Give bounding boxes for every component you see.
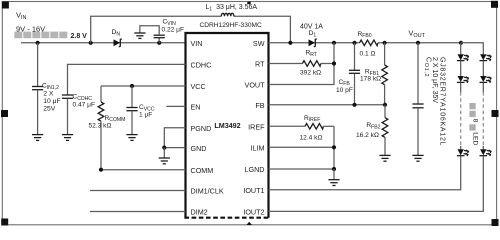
wire IREF/ILIM/LGND sense ground net — [333, 126, 335, 169]
svg-text:392 kΩ: 392 kΩ — [300, 69, 321, 76]
node PGND / GND junction — [162, 146, 166, 150]
svg-text:1 μF: 1 μF — [139, 111, 152, 118]
svg-text:16.2 kΩ: 16.2 kΩ — [356, 132, 379, 139]
svg-text:LED: LED — [472, 132, 479, 145]
svg-text:VIN: VIN — [191, 39, 203, 48]
wire PGND — [164, 128, 185, 148]
ground PGND/GND — [159, 148, 170, 164]
svg-text:LGND: LGND — [245, 165, 265, 174]
node FB / C_FB junction — [352, 103, 356, 107]
wire VIN rail — [21, 42, 186, 44]
wire output rail after R_FB0 — [378, 42, 461, 44]
note shutdown voltage (Chinese, gray) — [14, 32, 87, 40]
capacitor C_IN1,2 — [32, 43, 61, 134]
wire COMM — [101, 169, 186, 171]
capacitor C_O1,2 — [412, 43, 423, 155]
svg-text:0.47 μF: 0.47 μF — [73, 101, 96, 108]
node ILIM junction — [332, 145, 336, 149]
node VOUT / LED string 1 junction — [459, 41, 463, 45]
wire ILIM — [269, 146, 335, 148]
svg-text:IREF: IREF — [248, 123, 265, 132]
svg-text:8: 8 — [472, 119, 479, 123]
wire CDHC — [68, 64, 186, 94]
svg-text:10 μF: 10 μF — [43, 98, 61, 105]
inductor L1 — [200, 4, 263, 29]
resistor R_FB1 — [360, 43, 387, 105]
node R_RT / sense column junction — [332, 61, 336, 65]
svg-text:12.4 kΩ: 12.4 kΩ — [300, 135, 323, 142]
wire IOUT1 — [269, 158, 461, 190]
svg-text:25V: 25V — [43, 105, 56, 112]
wire DIM1/CLK — [90, 190, 186, 192]
ground R_FB2 — [379, 155, 390, 161]
node FB / R_FB1 / R_FB2 junction — [383, 103, 387, 107]
wire inductor loop — [91, 16, 222, 43]
ground C_IN — [32, 135, 43, 141]
resistor R_RT — [269, 50, 335, 77]
wire inductor loop right — [234, 16, 291, 43]
label C_O values (vertical) — [423, 57, 445, 146]
wire LED string top — [461, 43, 483, 54]
node SW / L junction — [288, 41, 292, 45]
U1 right pin names — [243, 39, 265, 217]
wire FB — [269, 104, 386, 106]
svg-text:178 kΩ: 178 kΩ — [360, 75, 381, 82]
node R_FB1 top junction — [383, 41, 387, 45]
wire LGND — [269, 168, 335, 170]
svg-text:GND: GND — [191, 144, 207, 153]
capacitor C_FB — [336, 43, 360, 105]
svg-text:DIM2: DIM2 — [191, 208, 208, 217]
capacitor C_CDHC — [62, 94, 95, 135]
ground C_VCC — [126, 135, 137, 141]
LED string 2 — [480, 54, 492, 158]
ground C_O — [412, 155, 423, 161]
svg-text:CDHC: CDHC — [191, 61, 212, 70]
label VIN — [16, 11, 45, 34]
node C_FB top junction — [352, 41, 356, 45]
svg-text:2 X 10 μF, 35V: 2 X 10 μF, 35V — [431, 57, 438, 103]
svg-text:RT: RT — [255, 60, 265, 69]
svg-text:0.1 Ω: 0.1 Ω — [360, 50, 376, 57]
svg-text:SW: SW — [253, 39, 265, 48]
node LGND junction — [332, 167, 336, 171]
svg-text:GJ832ER7YA106KA12L: GJ832ER7YA106KA12L — [438, 57, 445, 146]
svg-text:IOUT1: IOUT1 — [243, 186, 264, 195]
svg-text:IOUT2: IOUT2 — [243, 208, 264, 217]
svg-text:2 X: 2 X — [43, 91, 54, 98]
U1 left pin names — [191, 39, 224, 217]
stray mark top — [247, 2, 250, 5]
wire VOUT sense column — [269, 43, 335, 85]
svg-text:LM3492: LM3492 — [214, 121, 240, 130]
wire DIM2 — [90, 211, 186, 213]
node VIN / C_VIN junction — [157, 41, 161, 45]
IC U1 LM3492 — [184, 32, 269, 218]
svg-text:VCC: VCC — [191, 82, 206, 91]
svg-text:2.8 V: 2.8 V — [71, 33, 88, 40]
svg-text:10 pF: 10 pF — [336, 87, 353, 94]
ground C_VIN — [134, 33, 145, 38]
ground C_CDHC — [62, 135, 73, 141]
node C_O junction — [416, 41, 420, 45]
node output / sense column junction — [332, 41, 336, 45]
note LEDs per string (Chinese, gray, vertical) — [469, 103, 478, 146]
wire IOUT2 — [269, 158, 484, 211]
capacitor C_VIN — [140, 19, 184, 43]
svg-text:VOUT: VOUT — [245, 81, 266, 90]
node COMM / R_COMM junction — [99, 168, 103, 172]
wire SW to output rail — [269, 42, 360, 44]
svg-text:ILIM: ILIM — [251, 144, 265, 153]
diode D1 — [300, 24, 323, 47]
svg-text:COMM: COMM — [191, 166, 214, 175]
wire GND — [164, 147, 185, 149]
svg-text:0.22 μF: 0.22 μF — [162, 26, 185, 33]
node VIN / L junction — [89, 41, 93, 45]
wire VCC — [101, 85, 186, 87]
wire EN stub — [166, 105, 185, 107]
svg-text:CDRH129HF-330MC: CDRH129HF-330MC — [200, 22, 263, 29]
node VCC / C_VCC junction — [130, 84, 134, 88]
resistor R_IREF — [269, 115, 335, 142]
resistor R_COMM — [89, 86, 126, 170]
svg-text:FB: FB — [255, 101, 264, 110]
capacitor C_VCC — [126, 86, 154, 134]
resistor R_FB0 — [358, 31, 379, 58]
ground LGND — [328, 169, 339, 186]
svg-text:PGND: PGND — [191, 124, 212, 133]
svg-text:EN: EN — [191, 103, 201, 112]
svg-text:DIM1/CLK: DIM1/CLK — [191, 187, 224, 196]
stray mark bottom — [246, 222, 252, 225]
LED string 1 — [457, 43, 469, 158]
svg-text:52.3 kΩ: 52.3 kΩ — [89, 122, 112, 129]
node VIN / C_IN junction — [36, 41, 40, 45]
diode D_N — [112, 29, 122, 47]
resistor R_FB2 — [356, 105, 388, 155]
